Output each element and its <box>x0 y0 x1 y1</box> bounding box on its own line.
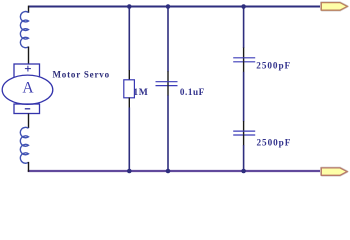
connector top output halo <box>321 3 347 11</box>
wire cap C2 branch upper <box>243 6 245 49</box>
connector bottom output <box>321 168 347 175</box>
wire lead coil to bottom net <box>28 162 30 172</box>
svg-text:0.1uF: 0.1uF <box>180 87 205 97</box>
wire cap C1 branch lower <box>167 95 169 171</box>
lead C1 top <box>167 71 169 86</box>
motor servo plus terminal box <box>14 64 40 78</box>
wire motor branch top lead <box>28 6 30 13</box>
svg-text:Motor Servo: Motor Servo <box>53 70 110 80</box>
junction dot top C2 <box>241 4 246 9</box>
capacitor C1 plates <box>156 82 178 86</box>
connector top output <box>321 3 347 11</box>
motor servo minus terminal box <box>14 104 40 114</box>
lead C2 bottom <box>243 61 245 72</box>
wire resistor branch lower <box>128 108 130 172</box>
inductor L2 (bottom coil of motor servo) <box>20 127 28 163</box>
lead C1 bottom <box>167 85 169 96</box>
lead resistor top <box>128 70 130 81</box>
svg-text:2500pF: 2500pF <box>257 137 292 147</box>
wire between C2 and C3 <box>243 72 245 122</box>
svg-text:A: A <box>22 80 34 97</box>
resistor R1 body <box>124 80 135 98</box>
connector bottom output halo <box>321 168 347 175</box>
wire lead coil to plus box <box>28 47 30 65</box>
ammeter ellipse A <box>2 75 53 104</box>
plus sign <box>25 66 31 72</box>
lead resistor bottom <box>128 98 130 109</box>
junction dot top C1 <box>166 4 171 9</box>
wire bottom net <box>28 170 323 172</box>
svg-text:2500pF: 2500pF <box>256 61 291 71</box>
capacitor C2 plates <box>233 58 255 62</box>
junction dot bottom C1 <box>166 169 171 174</box>
minus sign <box>25 108 30 110</box>
capacitor C3 plates <box>233 131 255 135</box>
junction dot bottom C3 <box>241 169 246 174</box>
svg-text:1M: 1M <box>133 87 148 98</box>
lead C3 top <box>243 121 245 135</box>
wire cap C1 branch upper <box>167 6 169 72</box>
junction dot bottom resistor <box>127 169 132 174</box>
lead C2 top <box>243 48 245 62</box>
wire lead minus box to bottom coil <box>28 114 30 129</box>
lead C3 bottom <box>243 135 245 146</box>
wire top net <box>29 6 323 8</box>
wire resistor branch upper <box>128 6 130 71</box>
junction dot top resistor <box>127 4 132 9</box>
wire cap C3 branch lower <box>243 145 245 171</box>
inductor L1 (top coil of motor servo) <box>20 12 28 48</box>
